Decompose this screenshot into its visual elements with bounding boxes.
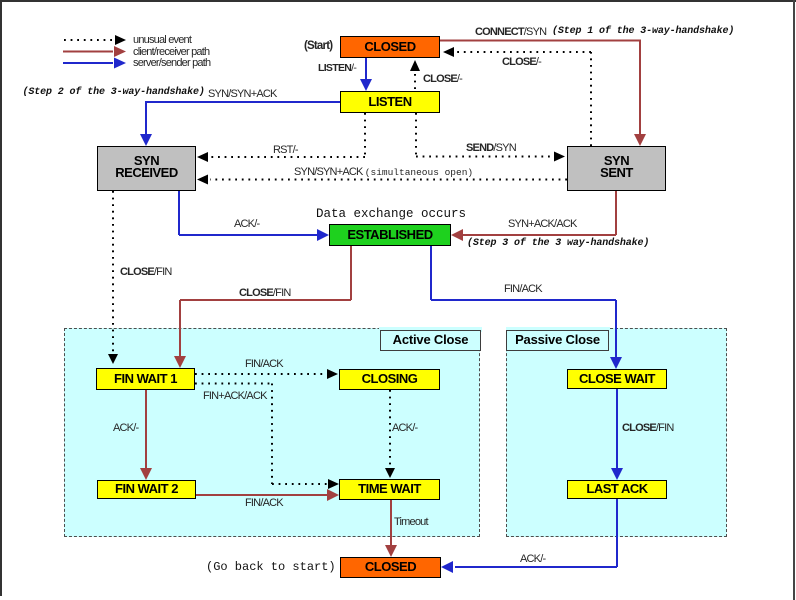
panel Passive Close xyxy=(506,328,727,537)
window frame left border xyxy=(0,0,2,596)
wire red TIME WAIT to CLOSED (Timeout) xyxy=(385,500,397,557)
label (Start) xyxy=(304,41,332,52)
note (Step 1 of the 3-way-handshake) xyxy=(552,27,734,37)
wire blue LISTEN to SYN RECEIVED (SYN/SYN+ACK step 2) xyxy=(140,102,340,146)
wire dotted LISTEN to CLOSED (CLOSE/-) xyxy=(410,60,420,91)
label FIN/ACK (blue path) xyxy=(504,284,542,295)
label CLOSE/FIN (red path) xyxy=(239,288,290,299)
label SYN+ACK/ACK xyxy=(508,219,577,230)
wire red FIN WAIT 1 to FIN WAIT 2 (ACK/-) xyxy=(140,390,152,480)
label box Active Close xyxy=(380,330,481,351)
state box LISTEN xyxy=(340,91,440,113)
legend red line (client/receiver path) xyxy=(63,46,126,57)
note (Go back to start) xyxy=(206,562,336,573)
wire dotted SYN RECEIVED to FIN WAIT 1 (CLOSE/FIN) xyxy=(108,191,118,364)
wire red SYN SENT to ESTABLISHED (SYN+ACK/ACK) xyxy=(451,191,616,241)
label CLOSE/- (between CLOSED and LISTEN) xyxy=(423,74,462,85)
wire red FIN WAIT 2 to TIME WAIT (FIN/ACK) xyxy=(196,489,339,501)
state box SYN RECEIVED xyxy=(97,146,196,191)
label SYN/SYN+ACK (simultaneous open) xyxy=(294,167,473,178)
wire dotted LISTEN to SYN SENT (SEND/SYN) xyxy=(416,113,565,162)
legend label client/receiver path xyxy=(133,47,209,58)
label ACK/- (FIN WAIT 1 to FIN WAIT 2) xyxy=(113,423,138,434)
window frame top border xyxy=(0,0,796,2)
note Data exchange occurs xyxy=(316,209,466,220)
wire blue ESTABLISHED to CLOSE WAIT (FIN/ACK) xyxy=(431,246,622,369)
wire red CLOSED to SYN SENT (CONNECT/SYN step 1) xyxy=(440,41,646,147)
state box CLOSED (top) xyxy=(340,36,440,58)
label CLOSE/- (top right) xyxy=(502,57,541,68)
wire red ESTABLISHED to FIN WAIT 1 (CLOSE/FIN) xyxy=(174,246,351,368)
label CLOSE/FIN (CLOSE WAIT to LAST ACK) xyxy=(622,423,673,434)
state box FIN WAIT 1 xyxy=(96,368,195,390)
wire dotted SYN SENT to CLOSED (CLOSE/-) xyxy=(443,47,591,146)
note (Step 3 of the 3 way-handshake) xyxy=(467,239,649,249)
label ACK/- (LAST ACK to CLOSED) xyxy=(520,554,545,565)
label FIN+ACK/ACK xyxy=(203,391,267,402)
legend label unusual event xyxy=(133,35,191,46)
state box FIN WAIT 2 xyxy=(97,480,196,499)
wire blue CLOSED to LISTEN xyxy=(360,58,372,91)
label FIN/ACK (FIN WAIT 1 to CLOSING) xyxy=(245,359,283,370)
label Timeout xyxy=(394,517,428,528)
wire blue SYN RECEIVED to ESTABLISHED (ACK/-) xyxy=(179,191,329,241)
window frame right border xyxy=(793,0,795,600)
state box LAST ACK xyxy=(567,480,667,499)
legend blue line (server/sender path) xyxy=(63,58,126,69)
state box ESTABLISHED xyxy=(329,224,451,246)
legend label server/sender path xyxy=(133,58,210,69)
wire dotted FIN WAIT 1 to CLOSING (FIN/ACK) xyxy=(195,369,338,379)
wire blue CLOSE WAIT to LAST ACK (CLOSE/FIN) xyxy=(611,389,623,480)
note (Step 2 of the 3-way-handshake) xyxy=(23,88,205,98)
label ACK/- (CLOSING to TIME WAIT) xyxy=(392,423,417,434)
label ACK/- (SYN RECEIVED to ESTABLISHED) xyxy=(234,219,259,230)
label RST/- xyxy=(273,145,298,156)
label LISTEN/- xyxy=(318,63,356,74)
legend dotted line (unusual event) xyxy=(64,35,126,45)
label CLOSE/FIN (dotted path) xyxy=(120,267,171,278)
state box CLOSING xyxy=(339,369,440,390)
wire dotted SYN SENT to SYN RECEIVED (simultaneous open) xyxy=(197,175,567,185)
state box CLOSE WAIT xyxy=(567,369,667,389)
wire blue LAST ACK to CLOSED (ACK/-) xyxy=(441,499,617,573)
state box TIME WAIT xyxy=(339,479,440,500)
state box CLOSED (bottom) xyxy=(340,557,441,578)
label SYN/SYN+ACK (step 2) xyxy=(208,89,277,100)
wire dotted CLOSING to TIME WAIT (ACK/-) xyxy=(385,390,395,478)
label SEND/SYN xyxy=(466,143,516,154)
state box SYN SENT xyxy=(567,146,666,191)
cover strip over panel dashes (Active Close label) xyxy=(379,327,482,332)
label FIN/ACK (FIN WAIT 2 to TIME WAIT) xyxy=(245,498,283,509)
label CONNECT/SYN xyxy=(475,27,546,38)
label box Passive Close xyxy=(506,330,609,351)
cover strip over panel dashes (Passive Close label) xyxy=(506,327,610,332)
wire dotted LISTEN to SYN RECEIVED (RST/-) xyxy=(197,113,365,162)
panel Active Close xyxy=(64,328,480,537)
wire dotted FIN WAIT 1 to TIME WAIT (FIN+ACK/ACK) xyxy=(195,384,339,490)
